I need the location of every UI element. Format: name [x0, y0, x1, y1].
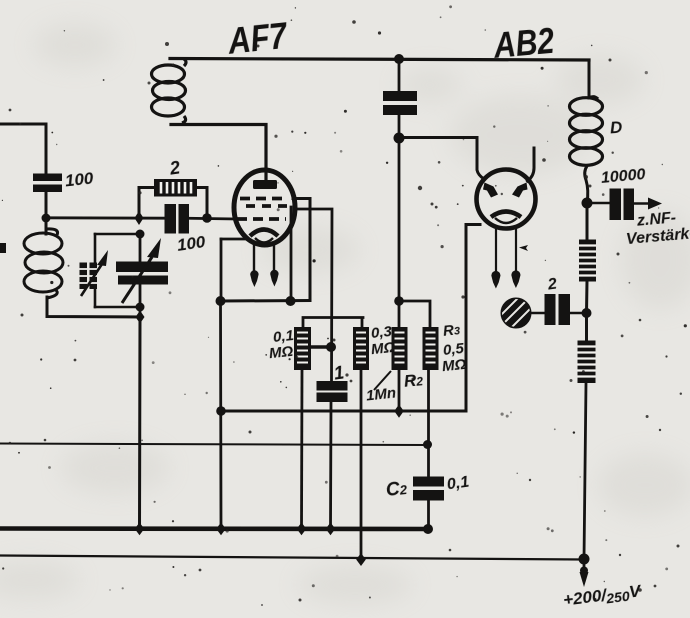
tube V1 AF7 envelope [234, 170, 295, 245]
wire ball to cap 2 [531, 312, 545, 315]
node ground left coil [136, 311, 145, 324]
node choke bottom [582, 198, 593, 209]
wire cathode return 411 [221, 410, 466, 413]
node bus 330 [326, 523, 336, 536]
wire screen column x399 [398, 59, 401, 301]
tube V1 cathode arc [250, 230, 278, 237]
resistor R3 [423, 327, 439, 370]
node R2 bottom [394, 405, 404, 418]
tube V1 leg drop left [250, 270, 258, 287]
node C screen divider [394, 296, 404, 306]
ground bus thick [0, 526, 428, 531]
capacitor anode-grid coupling [383, 91, 417, 115]
node minus rail R03 [356, 553, 366, 566]
wire AB2 right anode whisker [528, 148, 535, 181]
resistor R 0.1M [294, 327, 311, 370]
wire AF7 inner shield drop [290, 207, 293, 301]
node bus 139 [135, 523, 145, 536]
node tuning bottom [136, 303, 145, 312]
wire antenna coil top stub [45, 218, 48, 234]
wire AF7 grid row2 exit down to cap 1 [294, 209, 332, 381]
output arrow NF [648, 198, 662, 210]
resistor R2 [392, 327, 408, 370]
node dots [42, 54, 593, 566]
wire HT minus rail [0, 556, 584, 560]
small arrow mark near AB2 leg [519, 245, 528, 251]
wire cathode node down to bottom junction [219, 301, 222, 529]
wire tuning box left side [94, 234, 97, 307]
node cathode box right [286, 296, 296, 306]
node tuning top [136, 230, 145, 239]
capacitor 2 AB2 [545, 294, 571, 325]
tube V2 leg drop left [491, 271, 500, 289]
wire right column segment 2 [586, 203, 589, 240]
wire AB2 cathode riser [466, 225, 480, 412]
tube V2 cathode arc [491, 212, 521, 218]
capacitor 1 block [317, 381, 348, 402]
coil L1 anode coil AF7 [152, 59, 187, 123]
wire right column segment 4 [584, 383, 586, 559]
wire output arrow stem [583, 559, 586, 573]
wire R 0.1M bottom to bus [300, 370, 303, 529]
coil L3 smoothing choke D [570, 97, 603, 166]
wire AF7 cathode box left side [220, 239, 223, 301]
wire R3 top link to node C [399, 301, 430, 327]
node grid2 tap [326, 342, 336, 352]
node 444 end [423, 440, 432, 449]
wire AB2 grid feed [399, 138, 484, 180]
node grid AB2 [394, 133, 405, 144]
resistor R 0.3M [353, 327, 369, 370]
wire coil L1 bottom to AF7 anode [171, 125, 266, 185]
text labels layer [226, 15, 289, 63]
label pointer 1Mn [374, 371, 391, 390]
wire resistor tops link [303, 318, 363, 328]
node HT corner [579, 554, 590, 565]
node antenna A [42, 214, 51, 223]
left edge label fragment [0, 243, 6, 253]
node bus end C2 [423, 524, 433, 534]
wire left edge antenna input [0, 124, 46, 174]
arrow +200V [580, 567, 588, 575]
node bus 301 [297, 523, 307, 536]
variable capacitor arrow [122, 257, 152, 303]
node top screen [394, 54, 404, 64]
wire antenna coil bottom to ground rail [47, 297, 140, 317]
wire variable capacitor center column [139, 234, 142, 317]
hatched ball cathode resistor [499, 295, 530, 329]
trimmer capacitor hatched [80, 250, 109, 296]
wire R 0.1M mid tap to grid line [311, 345, 331, 348]
wire right column segment 3 [585, 281, 589, 341]
node bus 221 [216, 523, 226, 536]
resistor right column lower [578, 341, 596, 384]
wire tuning box bottom [95, 306, 140, 309]
trimmer arrow [81, 264, 102, 296]
wire R2 bottom leg [398, 370, 401, 411]
tube V2 left anode plate [483, 183, 498, 198]
coil L2 antenna coil [24, 229, 63, 298]
tube V2 heater arc [495, 218, 517, 223]
tube V2 leg drop right [511, 270, 520, 288]
variable capacitor plates [116, 262, 168, 285]
node cap2 right [582, 308, 592, 318]
node 411 left [216, 406, 226, 416]
wire tuning box top [95, 233, 140, 236]
wire R2 top to node C [398, 301, 401, 327]
wire grid line node A to cap 100 [46, 216, 165, 219]
node grid left [135, 211, 144, 225]
capacitor 10000 [610, 189, 635, 221]
capacitor 100pF series [165, 204, 190, 234]
wire coil D bottom S-bend [585, 166, 588, 203]
wire cap 1 bottom to bus [329, 402, 332, 529]
wire AF7 cathode box top stub [221, 238, 247, 241]
wire AB2 heater leg left [495, 228, 497, 272]
tube V1 heater arc [255, 238, 273, 243]
node cathode box left [216, 296, 226, 306]
wire C2 bottom to bus end [427, 500, 430, 529]
tube V1 leg drop right [270, 270, 278, 287]
tube V1 anode plate [253, 180, 277, 189]
capacitor C2 [413, 477, 444, 501]
wire cap 2 to right column [570, 312, 587, 315]
resistor 2 horizontal [154, 179, 197, 197]
wire cap C1 to node A [45, 193, 48, 218]
tube V2 AB2 envelope [477, 170, 536, 229]
tube V1 grid row3 dashes [237, 217, 286, 221]
wire right column top corner [588, 60, 591, 98]
resistor right column upper [579, 240, 596, 282]
wire R3 bottom through to C2 [427, 370, 430, 477]
tube V2 right anode plate [512, 183, 528, 198]
wire top bus AF7 anode to AB2 [170, 59, 589, 61]
tube V1 grid row1 dashes [240, 197, 288, 201]
wire node B down to ground bus [138, 317, 142, 529]
wire resistor 2 left leg [139, 188, 155, 219]
wire cap 100 to AF7 grid g1 [188, 217, 236, 220]
wire AF7 grid row1 exit to box [293, 199, 310, 301]
wire AF7 legs [254, 244, 274, 273]
node grid right [202, 213, 212, 223]
capacitor C1 100pF antenna [33, 174, 62, 193]
wire AF7 cathode box bottom [221, 299, 310, 303]
wire resistor 2 right leg [196, 188, 207, 219]
tube V1 grid row2 dashes [246, 204, 292, 208]
wire long thin rail 444 [0, 444, 427, 446]
wire cap 10000 stub [590, 202, 650, 205]
wire R 0.3M bottom to minus rail [360, 370, 363, 560]
wire AB2 heater leg right [515, 228, 517, 271]
